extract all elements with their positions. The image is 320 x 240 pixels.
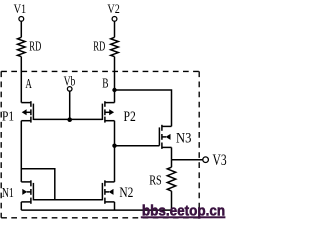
svg-text:N2: N2 [119, 185, 133, 201]
svg-text:RD: RD [29, 38, 41, 53]
svg-text:A: A [25, 76, 32, 91]
svg-text:V1: V1 [14, 2, 27, 16]
svg-text:B: B [102, 75, 108, 90]
svg-text:N1: N1 [2, 185, 14, 200]
svg-text:V3: V3 [213, 152, 227, 169]
svg-text:RS: RS [149, 173, 162, 188]
svg-text:N3: N3 [176, 130, 191, 146]
svg-text:Vb: Vb [64, 75, 76, 90]
svg-text:P1: P1 [2, 109, 14, 124]
svg-text:P2: P2 [124, 109, 136, 125]
svg-text:RD: RD [93, 38, 105, 53]
svg-text:V2: V2 [107, 2, 119, 16]
